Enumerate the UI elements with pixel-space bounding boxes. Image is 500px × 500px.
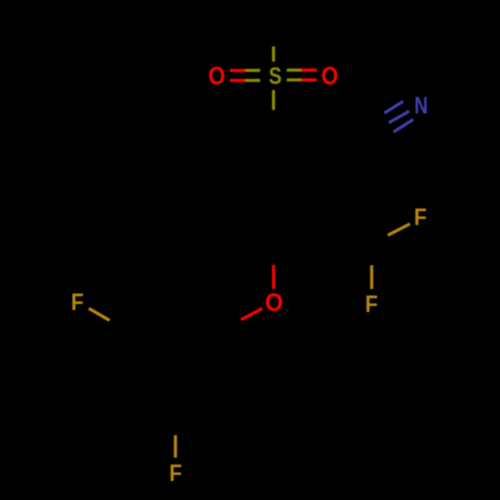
svg-text:F: F: [71, 289, 84, 316]
svg-text:F: F: [365, 291, 378, 318]
svg-text:O: O: [321, 63, 338, 91]
svg-text:O: O: [265, 289, 283, 317]
svg-text:F: F: [169, 460, 182, 487]
svg-text:S: S: [269, 63, 282, 90]
svg-text:F: F: [414, 204, 427, 231]
svg-text:N: N: [414, 92, 428, 119]
svg-text:O: O: [208, 63, 225, 91]
